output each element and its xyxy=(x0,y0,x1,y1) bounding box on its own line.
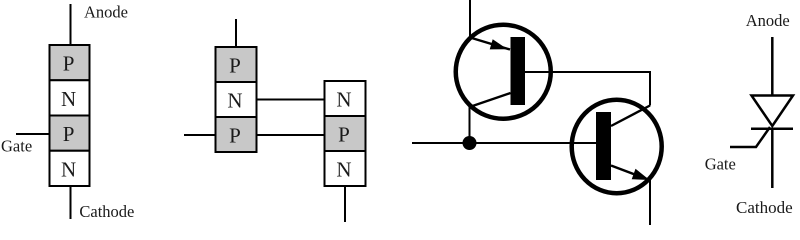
N region (bottom, right NPN stack) xyxy=(325,151,366,186)
wire gate lead (thyristor symbol) xyxy=(730,127,770,147)
P region (gate, PNPN stack) xyxy=(50,116,90,151)
svg-text:Gate: Gate xyxy=(1,136,32,155)
svg-text:Gate: Gate xyxy=(705,155,736,174)
wire top lead (left PNP stack) xyxy=(235,19,237,47)
transistor Q1 (PNP) circle xyxy=(456,25,551,119)
wire cathode lead (thyristor symbol) xyxy=(771,129,774,188)
P region (top, left PNP stack) xyxy=(216,47,257,82)
svg-text:P: P xyxy=(63,122,75,146)
svg-text:N: N xyxy=(336,88,351,112)
svg-text:Anode: Anode xyxy=(746,11,790,30)
svg-text:P: P xyxy=(229,54,241,78)
transistor Q2 (NPN) circle xyxy=(572,100,662,194)
thyristor triangle xyxy=(752,96,794,127)
svg-text:N: N xyxy=(227,89,242,113)
svg-text:Cathode: Cathode xyxy=(736,198,793,217)
svg-text:P: P xyxy=(338,123,350,147)
wire gate lead (PNPN stack) xyxy=(16,133,50,135)
transistor Q1 collector line xyxy=(471,93,511,107)
N region (bottom, PNPN stack) xyxy=(50,151,90,186)
svg-text:P: P xyxy=(229,124,241,148)
wire P-P connector between stacks xyxy=(257,134,325,136)
wire gate rail to Q2 base xyxy=(412,142,596,144)
svg-text:N: N xyxy=(61,87,76,111)
wire anode lead (thyristor symbol) xyxy=(771,37,774,96)
wire anode lead into Q1 emitter xyxy=(469,0,471,39)
P region (top, PNPN stack) xyxy=(50,45,90,80)
svg-text:Anode: Anode xyxy=(84,3,128,22)
svg-text:N: N xyxy=(336,158,351,182)
wire Q2 base segment inside circle xyxy=(566,142,596,144)
wire gate lead (left PNP stack) xyxy=(184,134,216,136)
wire cathode lead (PNPN stack) xyxy=(70,186,72,219)
wire Q1 collector drop to junction xyxy=(469,106,471,143)
wire anode lead (PNPN stack) xyxy=(70,4,72,45)
P region (middle, right NPN stack) xyxy=(325,116,366,151)
svg-text:N: N xyxy=(61,157,76,181)
wire corner down to Q2 collector xyxy=(649,71,651,106)
thyristor cathode bar xyxy=(751,127,793,130)
svg-text:P: P xyxy=(63,52,75,76)
N region (top, right NPN stack) xyxy=(325,81,366,116)
transistor Q1 base bar xyxy=(511,37,526,105)
svg-text:Cathode: Cathode xyxy=(79,202,134,221)
transistor Q2 collector line xyxy=(611,106,650,127)
transistor Q2 emitter line with arrow outward xyxy=(611,166,650,181)
wire Q1 base to right corner xyxy=(525,71,650,73)
N region (middle, left PNP stack) xyxy=(216,82,257,117)
transistor Q2 base bar xyxy=(596,112,611,180)
P region (bottom, left PNP stack) xyxy=(216,117,257,152)
N region (PNPN stack) xyxy=(50,80,90,115)
wire N-N connector between stacks xyxy=(257,99,325,101)
wire cathode lead from Q2 emitter xyxy=(649,180,651,225)
junction dot xyxy=(463,136,477,150)
wire bottom lead (right NPN stack) xyxy=(344,186,346,222)
transistor Q1 emitter line with arrow into bar xyxy=(470,38,510,50)
